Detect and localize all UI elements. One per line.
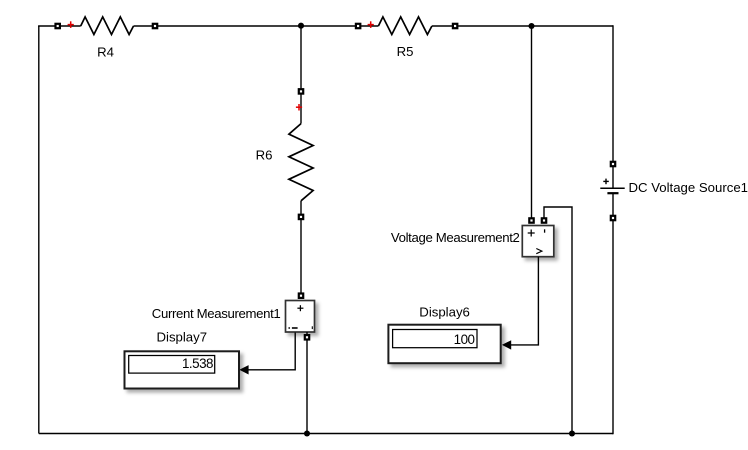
wire right vertical down to source (612, 25, 614, 161)
CM1 minus port (304, 334, 311, 341)
svg-text:100: 100 (454, 332, 475, 347)
VM2 plus terminal mark (528, 230, 535, 237)
svg-text:DC Voltage Source1: DC Voltage Source1 (629, 180, 748, 195)
wire top-left corner to R4 left terminal (38, 25, 55, 27)
DC Voltage Source1 plus port (610, 161, 617, 168)
svg-text:R6: R6 (256, 148, 273, 163)
VM2 plus port (528, 217, 535, 224)
R4 left port (54, 23, 61, 30)
CM1 rotated minus terminal mark (311, 326, 313, 329)
node junction top of VM2 branch (528, 23, 534, 29)
Display7 value field box (129, 356, 215, 374)
arrowhead into Display7 input (239, 365, 248, 374)
svg-text:R4: R4 (97, 45, 114, 60)
wire R5 lead-out (432, 25, 452, 27)
wire R6 to Current Measurement1 (300, 220, 302, 293)
wire R5 to top-right corner (458, 25, 613, 27)
DC Voltage Source1 minus port (610, 215, 617, 222)
svg-text:Voltage Measurement2: Voltage Measurement2 (391, 230, 520, 245)
R4 polarity plus mark (68, 21, 74, 28)
Display7 outer box (125, 351, 240, 388)
wire source top stub (612, 167, 614, 188)
Display6 outer box (388, 325, 500, 364)
wire junction down to VM2 plus port (531, 26, 533, 218)
CM1 body box (286, 301, 315, 333)
wire bottom return rail (39, 433, 613, 435)
arrowhead into Display6 input (502, 340, 511, 349)
display block Display6 (388, 325, 500, 364)
node junction top of R6 branch (298, 23, 304, 29)
battery short plate (607, 192, 618, 194)
CM1 plus port (298, 292, 305, 299)
display block Display7 (125, 351, 240, 388)
wire R5 lead-in (361, 25, 378, 27)
wire VM2 output signal to Display6 (511, 257, 538, 345)
VM2 v output chevron mark (536, 249, 542, 254)
wire R4 lead-in (61, 25, 81, 27)
wire R4 lead-out (134, 25, 153, 27)
CM1 rotated i output mark (288, 327, 290, 329)
wire CM1 minus down to bottom rail (306, 340, 308, 433)
wire left vertical branch (38, 26, 40, 434)
R4 right port (152, 23, 159, 30)
VM2 minus port (541, 217, 548, 224)
wire VM2 minus loop to bottom rail (544, 207, 572, 434)
wire CM1 output signal to Display7 (248, 333, 295, 370)
VM2 rotated minus terminal mark (544, 229, 546, 232)
R5 zigzag body (378, 17, 432, 35)
R6 top port (298, 88, 305, 95)
wire source bottom stub (612, 193, 614, 215)
node junction bottom rail / VM2 (569, 430, 575, 436)
svg-text:Display6: Display6 (419, 304, 470, 319)
source polarity plus sign (603, 179, 609, 185)
R5 polarity plus mark (368, 21, 374, 28)
wire R6 lead-in (300, 94, 302, 123)
dc source DC Voltage Source1 (600, 161, 624, 222)
R5 left port (355, 23, 362, 30)
battery long plate (600, 187, 624, 189)
wire CM1 minus stub (306, 332, 308, 334)
Display6 value field box (393, 330, 477, 348)
CM1 plus terminal mark (297, 305, 303, 311)
R5 right port (452, 23, 459, 30)
VM2 body box (522, 226, 554, 257)
R6 bottom port (298, 214, 305, 221)
R4 zigzag body (81, 17, 134, 35)
resistor R4 (54, 17, 158, 35)
wire R6 lead-out (300, 201, 302, 214)
wire source to bottom-right corner (612, 221, 614, 434)
svg-text:Display7: Display7 (157, 329, 208, 344)
R6 zigzag body (289, 124, 313, 201)
svg-text:Current Measurement1: Current Measurement1 (152, 306, 281, 321)
svg-text:1.538: 1.538 (182, 356, 213, 371)
voltage measurement block Voltage Measurement2 (522, 217, 554, 257)
node junction bottom rail / CM1 (304, 430, 310, 436)
resistor R5 (355, 17, 459, 35)
current measurement block Current Measurement1 (286, 292, 315, 340)
R6 polarity plus mark (296, 104, 302, 111)
wire R4 to R5 top rail (158, 25, 355, 27)
wire junction down to R6 (300, 26, 302, 88)
svg-text:R5: R5 (397, 44, 414, 59)
resistor R6 (289, 88, 313, 220)
